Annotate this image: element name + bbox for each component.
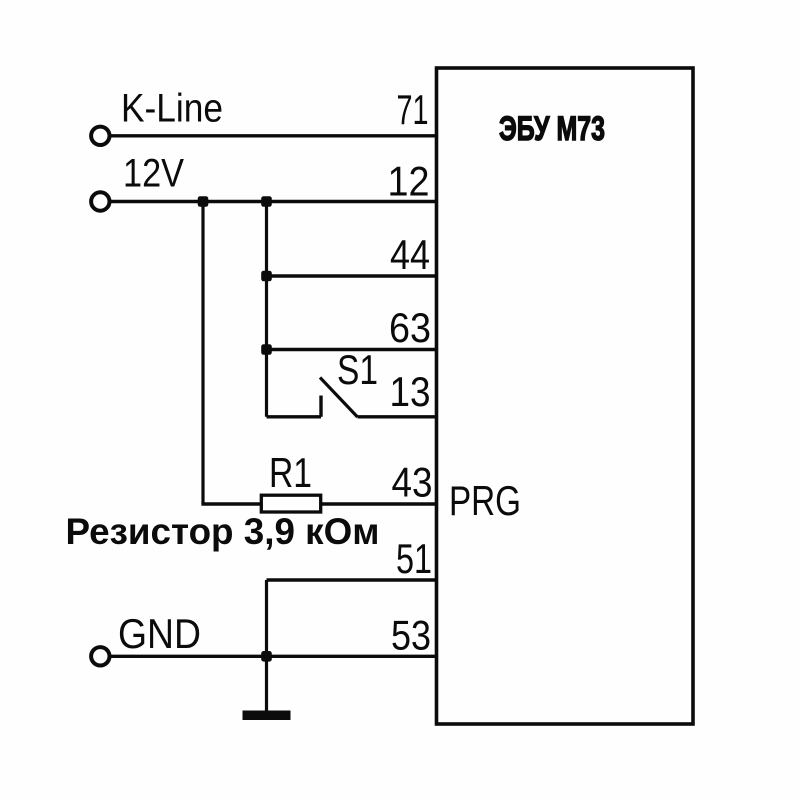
terminal K-Line bbox=[91, 127, 109, 145]
junction dot at pin53 and ground branch bbox=[261, 651, 272, 662]
svg-text:K-Line: K-Line bbox=[121, 87, 223, 131]
svg-text:12: 12 bbox=[388, 158, 430, 205]
svg-text:Резистор 3,9 кОм: Резистор 3,9 кОм bbox=[66, 511, 380, 552]
wire switch to pin 13 bbox=[358, 415, 437, 418]
svg-text:53: 53 bbox=[391, 612, 431, 659]
wire to pin 51 bbox=[267, 578, 437, 581]
wire resistor to pin 43 PRG bbox=[201, 502, 436, 505]
wire to pin 44 bbox=[267, 274, 437, 277]
wire 12V to pin 12 bbox=[110, 200, 436, 203]
wire switch left segment to pin 13 bbox=[267, 415, 322, 418]
svg-text:ЭБУ М73: ЭБУ М73 bbox=[499, 110, 605, 148]
svg-text:13: 13 bbox=[390, 368, 431, 415]
switch S1 blade bbox=[320, 378, 358, 418]
terminal 12V bbox=[91, 192, 109, 210]
junction dot on 12V wire at x266 bbox=[261, 196, 272, 207]
svg-text:R1: R1 bbox=[269, 449, 312, 496]
ECU box U1 (ЭБУ М73) bbox=[437, 68, 694, 724]
terminal GND bbox=[91, 647, 109, 665]
svg-text:63: 63 bbox=[389, 304, 431, 351]
svg-text:43: 43 bbox=[392, 459, 433, 506]
wire vertical bus x266 from 12V down to switch bbox=[265, 202, 268, 417]
ground symbol bbox=[243, 711, 291, 721]
svg-text:51: 51 bbox=[396, 535, 432, 582]
wire GND to pin 53 bbox=[110, 655, 436, 658]
svg-text:12V: 12V bbox=[123, 152, 184, 196]
svg-text:GND: GND bbox=[118, 610, 201, 657]
svg-text:71: 71 bbox=[397, 86, 429, 133]
svg-text:PRG: PRG bbox=[449, 477, 521, 524]
junction dot at pin63 branch bbox=[261, 344, 272, 355]
wire K-Line to pin 71 bbox=[110, 134, 436, 137]
wire vertical 12V to resistor R1 bbox=[201, 202, 204, 505]
resistor R1 body bbox=[261, 495, 320, 512]
wire to pin 63 bbox=[267, 348, 437, 351]
wire vertical pin 51 to ground bbox=[265, 580, 268, 711]
junction dot on 12V wire at x203 bbox=[198, 196, 209, 207]
svg-text:44: 44 bbox=[390, 231, 430, 278]
switch S1 left contact stub bbox=[319, 396, 322, 417]
svg-text:S1: S1 bbox=[337, 346, 378, 393]
junction dot at pin44 branch bbox=[261, 271, 272, 282]
